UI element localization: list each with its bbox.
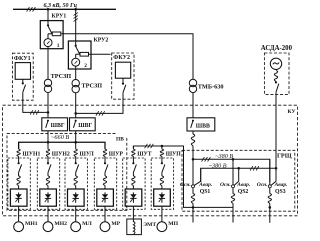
enclosure ШУТ bbox=[123, 158, 145, 209]
breaker in KRU1 bbox=[47, 24, 49, 26]
FKU1 switch bbox=[22, 79, 24, 83]
drive column ШУП bbox=[161, 146, 163, 149]
wire: KRU1 fuse output to TMB-630 bbox=[61, 34, 193, 80]
cable zigzag 2 ШУП bbox=[160, 176, 163, 186]
drive column ШУН2 bbox=[47, 142, 49, 149]
wire ShVV to GRShch bbox=[192, 146, 194, 160]
svg-text:QS2: QS2 bbox=[238, 189, 249, 195]
switch ШУР bbox=[104, 156, 106, 163]
enclosure ШУП bbox=[151, 158, 173, 209]
node QS2 emergency tap bbox=[237, 167, 240, 170]
svg-text:ШУР: ШУР bbox=[109, 151, 124, 157]
FKU2 switch bbox=[122, 78, 124, 83]
cable zigzag 2 ШУН1 bbox=[17, 176, 20, 186]
svg-text:Авар.: Авар. bbox=[274, 182, 288, 188]
incoming switch ShVV bbox=[187, 118, 215, 131]
node ShVG1/bus bbox=[47, 141, 50, 144]
drive column ШУР bbox=[104, 142, 106, 149]
svg-text:КРУ2: КРУ2 bbox=[94, 37, 109, 43]
switch ШУН1 bbox=[18, 156, 20, 163]
incoming switch ShVG 1 bbox=[42, 118, 68, 131]
svg-text:1: 1 bbox=[57, 43, 60, 49]
svg-text:АСДА-200: АСДА-200 bbox=[261, 45, 293, 52]
switchgear cell KRU2 bbox=[68, 41, 91, 69]
wire ShVG2 to 660V bus bbox=[75, 131, 77, 143]
wire to motor MN1 bbox=[18, 206, 20, 222]
svg-text:МР: МР bbox=[111, 221, 120, 227]
crane switchboard KU enclosure bbox=[3, 105, 298, 216]
changeover switch QS2 bbox=[232, 159, 234, 184]
capacitor unit FKU1 enclosure bbox=[12, 53, 33, 100]
incoming switch ShVG 2 bbox=[70, 118, 96, 131]
svg-text:ТРСЗП: ТРСЗП bbox=[82, 82, 103, 89]
svg-text:~660 В: ~660 В bbox=[51, 134, 69, 141]
wire: KRU2 fuse output stub bbox=[89, 53, 111, 55]
svg-text:ШВГ: ШВГ bbox=[78, 123, 92, 129]
svg-text:ФКУ1: ФКУ1 bbox=[14, 56, 31, 62]
node ShVG2/bus bbox=[74, 141, 77, 144]
transformer TRSZP (left) bbox=[44, 79, 51, 86]
svg-text:МП: МП bbox=[168, 221, 178, 227]
bus ~380 V emergency bbox=[201, 168, 276, 182]
cable zigzag ШУР bbox=[103, 149, 106, 156]
drive column ШУТ bbox=[132, 146, 134, 149]
wire to motor MP bbox=[161, 206, 163, 222]
thyristor converter bay PV enclosure bbox=[7, 134, 127, 211]
wire: FKU1 to left riser bbox=[23, 92, 48, 112]
wire below TRSZP right bbox=[75, 93, 77, 118]
cable zigzag ШУТ bbox=[132, 149, 135, 156]
cable mark on FKU2 tie bbox=[96, 111, 99, 115]
wire: bus to KRU1 bbox=[47, 9, 49, 25]
cable zigzag 2 ШУР bbox=[103, 176, 106, 186]
svg-text:ШВГ: ШВГ bbox=[51, 123, 65, 129]
fuse in KRU2 bbox=[80, 52, 89, 56]
node: KRU2 tap bbox=[74, 8, 77, 11]
wire: FKU2 to right riser bbox=[76, 93, 123, 114]
ASDA generator bbox=[270, 58, 281, 69]
svg-text:ПВ: ПВ bbox=[116, 137, 124, 143]
transformer TRSZP (right) bbox=[72, 80, 79, 87]
cable zigzag 2 ШУТ bbox=[132, 176, 135, 186]
ASDA switch bbox=[275, 81, 277, 83]
svg-text:ФКУ2: ФКУ2 bbox=[113, 55, 130, 61]
cable mark on FKU1 tie bbox=[30, 110, 33, 114]
thyristor converter ШУН2 bbox=[40, 189, 57, 206]
cable zigzag 2 ШУЛ bbox=[74, 176, 77, 186]
wire: 380V feeder to ShUT and ShUP bbox=[133, 146, 233, 207]
svg-text:Осн.: Осн. bbox=[180, 182, 191, 188]
svg-text:~380 В: ~380 В bbox=[215, 153, 233, 160]
svg-text:МЛ: МЛ bbox=[82, 221, 92, 227]
cable zigzag ШУН2 bbox=[46, 149, 49, 156]
cable zigzag ШУЛ bbox=[74, 149, 77, 156]
node FKU2 tie bbox=[74, 112, 77, 115]
svg-text:КРУ1: КРУ1 bbox=[52, 14, 67, 20]
svg-text:КУ: КУ bbox=[288, 109, 296, 115]
wire below TRSZP left bbox=[47, 93, 49, 118]
wire: bus to KRU2 bbox=[75, 9, 77, 45]
changeover switch QS3 bbox=[269, 159, 271, 184]
cable mark on KRU2 feed bbox=[74, 13, 78, 16]
bus ~660 V bbox=[19, 142, 105, 149]
svg-text:ШУН2: ШУН2 bbox=[52, 151, 70, 157]
svg-text:ШУТ: ШУТ bbox=[137, 151, 152, 157]
instrument transformer 1 in KRU1 bbox=[47, 34, 49, 39]
switch ШУЛ bbox=[75, 156, 77, 163]
wire to brake magnet EMT bbox=[132, 206, 134, 219]
fuse in KRU1 bbox=[52, 32, 61, 36]
svg-text:ШВВ: ШВВ bbox=[196, 123, 210, 129]
motor MR bbox=[100, 222, 110, 232]
breaker in KRU2 bbox=[75, 45, 77, 47]
svg-text:Осн.: Осн. bbox=[257, 182, 268, 188]
cable zigzag ШУН1 bbox=[17, 149, 20, 156]
main 380V switchboard GRShch enclosure bbox=[182, 150, 295, 211]
svg-text:Авар.: Авар. bbox=[198, 182, 212, 188]
bus 6,3 kV bbox=[13, 8, 116, 10]
thyristor converter ШУН1 bbox=[10, 189, 27, 206]
svg-text:Осн.: Осн. bbox=[220, 182, 231, 188]
svg-text:МН1: МН1 bbox=[25, 221, 38, 227]
wire below TMB-630 bbox=[192, 93, 194, 118]
transformer TMB-630 bbox=[189, 79, 196, 86]
svg-text:~380 В: ~380 В bbox=[209, 163, 227, 170]
enclosure ШУЛ bbox=[65, 158, 87, 209]
FKU1 capacitor bank bbox=[15, 63, 30, 80]
cable zigzag 2 ШУН2 bbox=[46, 176, 49, 186]
switch ШУП bbox=[161, 156, 163, 163]
cable mark on 6,3 kV bus bbox=[27, 7, 30, 11]
thyristor converter ШУТ bbox=[125, 189, 142, 206]
svg-text:ЭМТ: ЭМТ bbox=[143, 222, 156, 228]
FKU2 capacitor bank bbox=[115, 62, 130, 78]
switch ШУН2 bbox=[47, 156, 49, 163]
motor MN1 bbox=[14, 222, 24, 232]
svg-text:QS1: QS1 bbox=[200, 189, 211, 195]
motor MN2 bbox=[43, 222, 53, 232]
node QS2 main tap bbox=[232, 158, 235, 161]
node ShUP tap bbox=[161, 145, 164, 148]
ASDA cable zigzag bbox=[274, 71, 277, 82]
cable zigzag ШУП bbox=[160, 149, 163, 156]
switchgear cell KRU1 bbox=[40, 21, 63, 49]
wire: KRU1 down to TRSZP bbox=[47, 47, 49, 80]
bus ~380 V main bbox=[193, 159, 270, 182]
thyristor converter ШУП bbox=[154, 189, 171, 206]
svg-text:МН2: МН2 bbox=[54, 221, 67, 227]
svg-text:2: 2 bbox=[84, 63, 87, 69]
switch ШУТ bbox=[132, 156, 134, 163]
ShVV cable zigzag bbox=[192, 131, 194, 134]
motor ML bbox=[71, 222, 81, 232]
wire ShVG1 to 660V bus bbox=[47, 131, 49, 143]
drive column ШУЛ bbox=[75, 142, 77, 149]
wire: ASDA down to emergency bus bbox=[275, 92, 277, 168]
node QS1 output bbox=[192, 206, 195, 209]
thyristor converter ШУР bbox=[97, 189, 114, 206]
svg-text:ТРСЗП: ТРСЗП bbox=[51, 73, 72, 80]
svg-text:ГРЩ: ГРЩ bbox=[277, 153, 292, 160]
svg-text:Авар.: Авар. bbox=[236, 182, 250, 188]
motor MP bbox=[157, 222, 167, 232]
thyristor converter ШУЛ bbox=[68, 189, 85, 206]
wire to motor MR bbox=[104, 206, 106, 222]
wire to motor MN2 bbox=[47, 206, 49, 222]
enclosure ШУН1 bbox=[8, 158, 30, 209]
capacitor unit FKU2 enclosure bbox=[112, 53, 134, 99]
node FKU1 tie bbox=[47, 111, 50, 114]
node ASDA/emergency bus bbox=[275, 167, 278, 170]
enclosure ШУР bbox=[94, 158, 116, 209]
svg-text:ШУЛ: ШУЛ bbox=[80, 151, 95, 157]
node: KRU1 tap bbox=[47, 8, 50, 11]
svg-text:ШУН1: ШУН1 bbox=[22, 151, 40, 157]
brake magnet EMT bbox=[127, 219, 142, 235]
changeover switch QS1 bbox=[192, 159, 194, 184]
enclosure ШУН2 bbox=[37, 158, 59, 209]
svg-text:ШУП: ШУП bbox=[166, 151, 182, 157]
svg-text:QS3: QS3 bbox=[275, 189, 286, 195]
wire to motor ML bbox=[75, 206, 77, 222]
svg-text:ТМБ-630: ТМБ-630 bbox=[198, 83, 224, 90]
instrument transformer 2 in KRU2 bbox=[75, 54, 77, 58]
wire: KRU2 down to TRSZP bbox=[75, 66, 77, 79]
node ShVV/bus1 bbox=[192, 158, 195, 161]
drive column ШУН1 bbox=[18, 142, 20, 149]
